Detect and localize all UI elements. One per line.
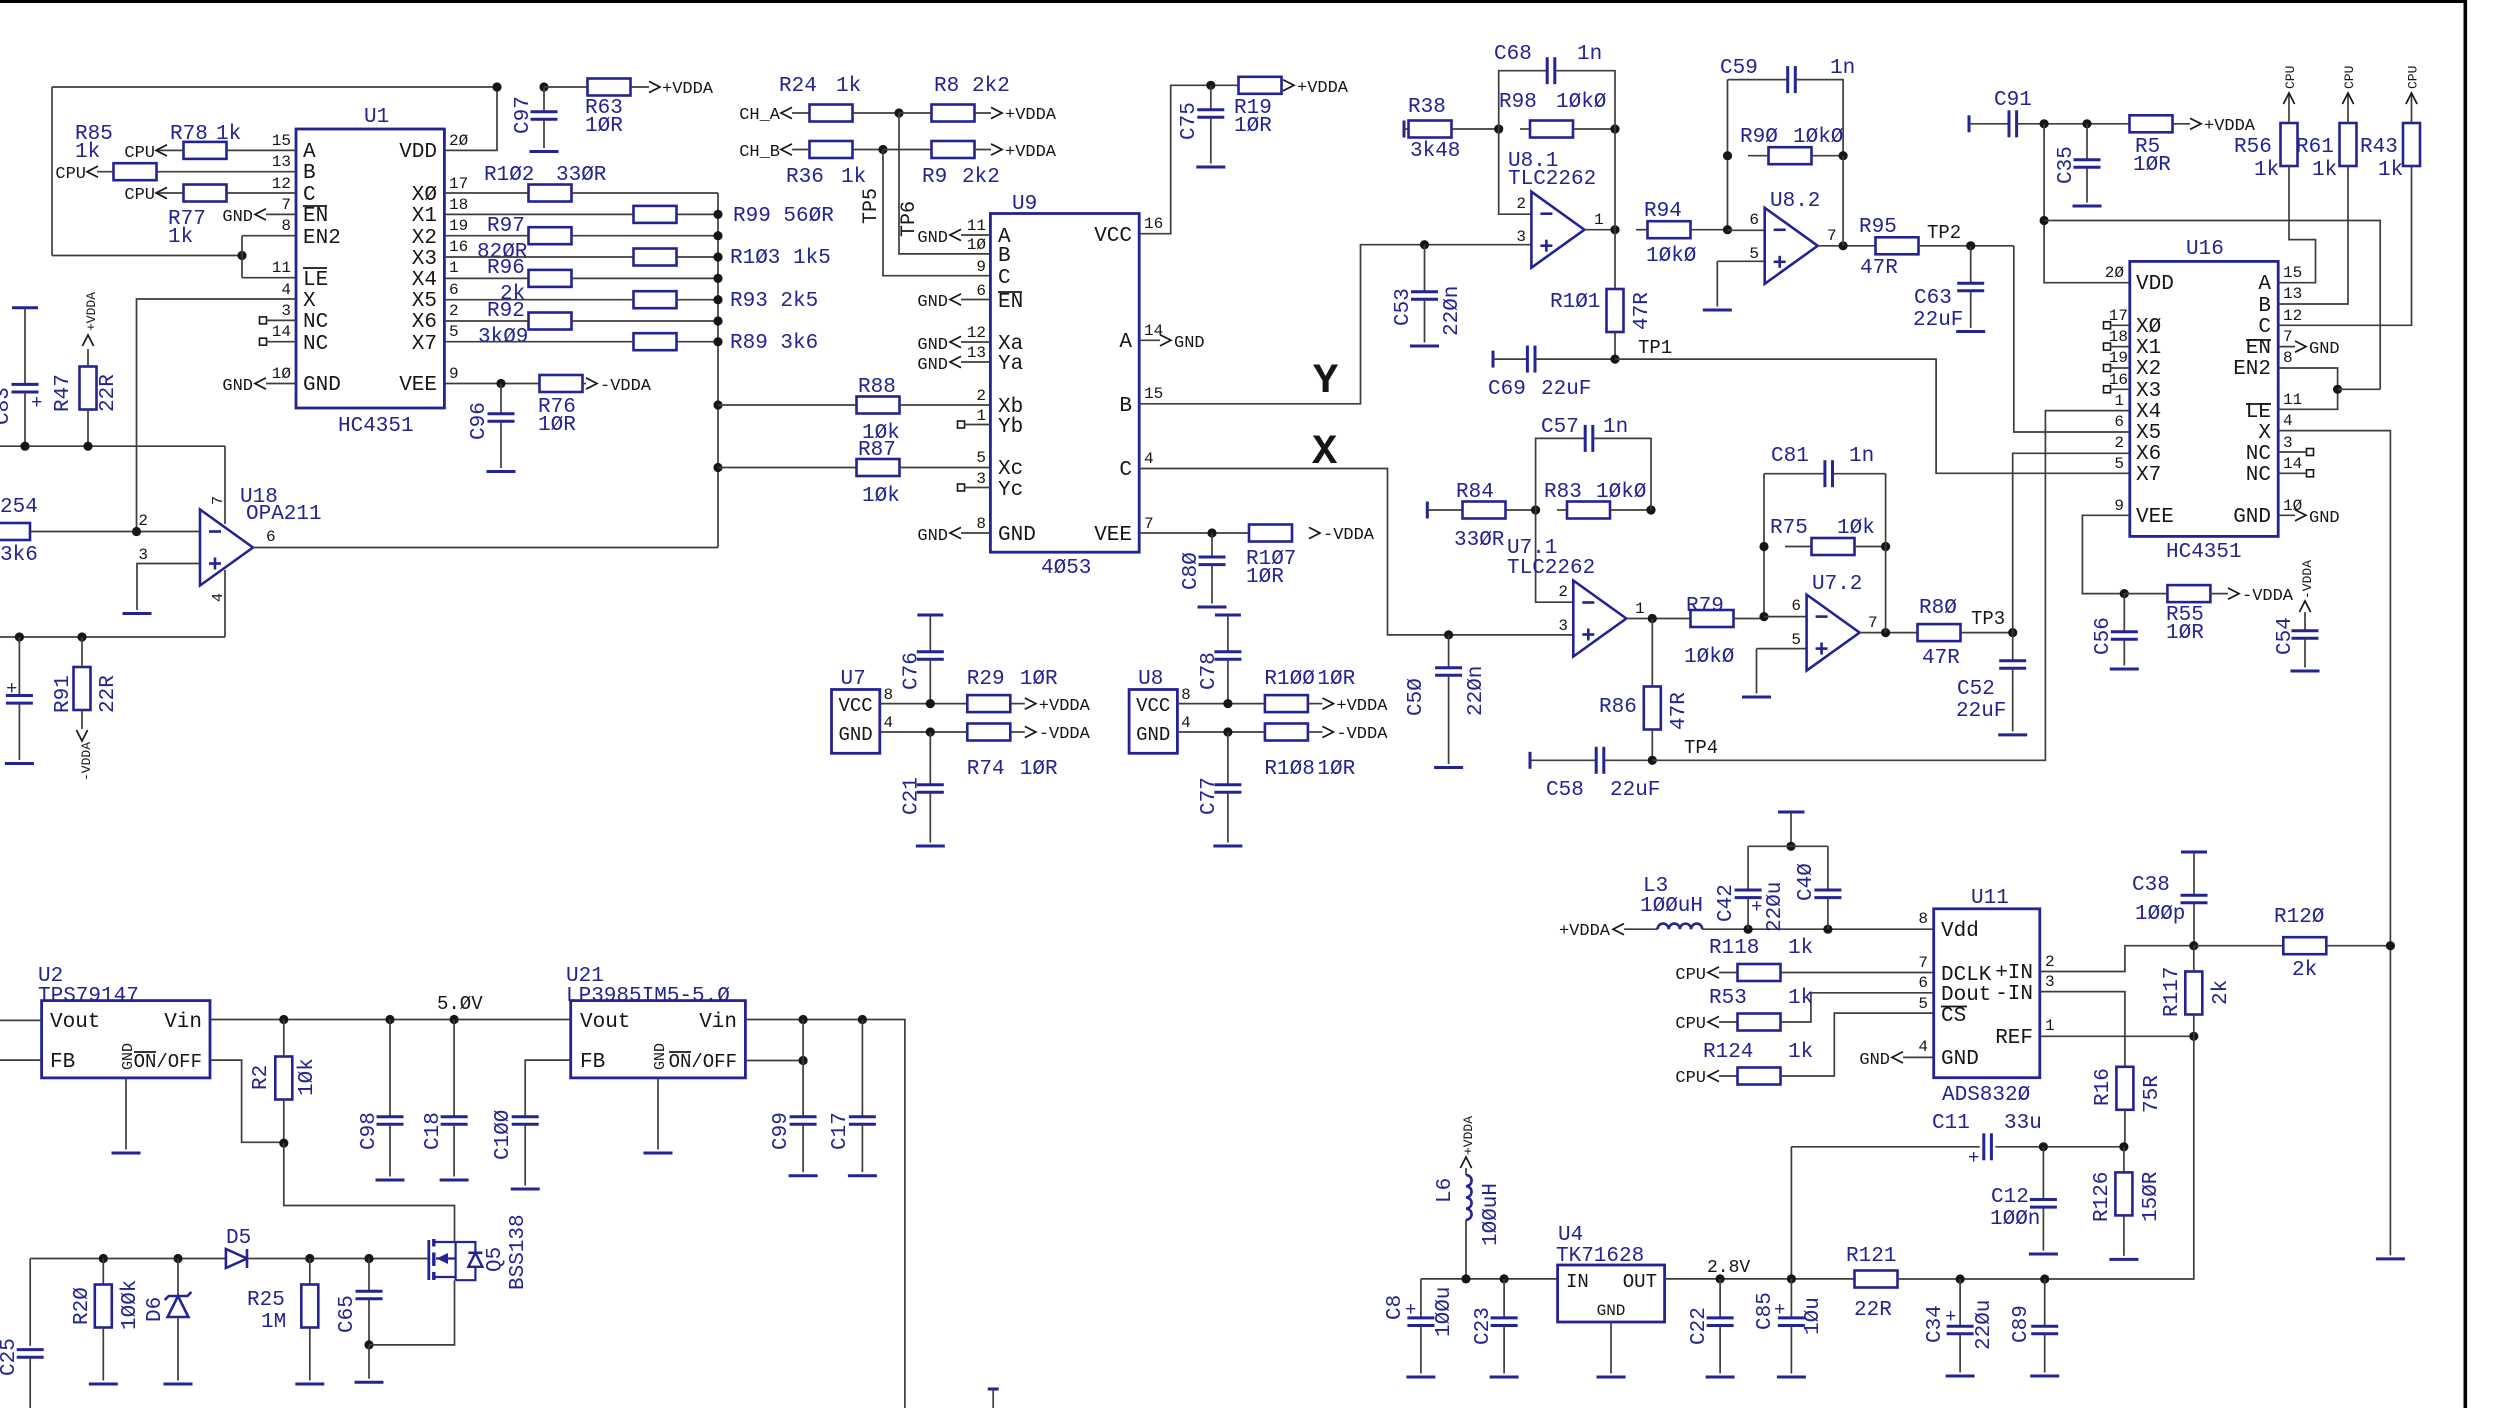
svg-text:-VDDA: -VDDA bbox=[2242, 587, 2294, 606]
svg-text:2k: 2k bbox=[2292, 959, 2317, 982]
svg-text:B: B bbox=[2258, 295, 2271, 318]
svg-text:4Ø53: 4Ø53 bbox=[1041, 557, 1091, 580]
svg-text:C1ØØ: C1ØØ bbox=[492, 1110, 515, 1160]
svg-text:R99 56ØR: R99 56ØR bbox=[733, 205, 834, 228]
svg-text:13: 13 bbox=[967, 344, 986, 362]
svg-text:6: 6 bbox=[449, 281, 459, 299]
ground U8.2 +input bbox=[1703, 261, 1732, 310]
svg-text:5: 5 bbox=[1749, 245, 1759, 263]
svg-text:CPU: CPU bbox=[1675, 1069, 1706, 1088]
svg-text:33ØR: 33ØR bbox=[556, 164, 607, 187]
svg-text:3k48: 3k48 bbox=[1410, 140, 1460, 163]
wire U1 VDD bbox=[444, 82, 501, 150]
capacitor C78 bbox=[1198, 615, 1242, 704]
svg-text:X1: X1 bbox=[412, 205, 437, 228]
svg-text:18: 18 bbox=[449, 196, 468, 214]
svg-text:LE: LE bbox=[303, 269, 328, 292]
resistor R121 bbox=[1846, 1245, 2049, 1322]
svg-text:NC: NC bbox=[2246, 443, 2271, 466]
U1 GND gnd flag bbox=[222, 377, 296, 396]
U9 pin labels right bbox=[1094, 225, 1132, 547]
wire REF net down bbox=[2045, 1036, 2194, 1279]
svg-text:4: 4 bbox=[1918, 1038, 1928, 1056]
svg-text:+VDDA: +VDDA bbox=[1005, 143, 1057, 162]
svg-text:15ØR: 15ØR bbox=[2140, 1171, 2163, 1222]
svg-text:U7: U7 bbox=[841, 668, 866, 691]
svg-text:B: B bbox=[998, 245, 1011, 268]
svg-text:CPU: CPU bbox=[1675, 1015, 1706, 1034]
U1 pin numbers left bbox=[272, 132, 292, 383]
svg-text:14: 14 bbox=[272, 323, 291, 341]
wire U11 +IN bbox=[2040, 946, 2194, 972]
U16 pin numbers right bbox=[2283, 264, 2303, 515]
capacitor C96 bbox=[468, 384, 516, 472]
transistor Q5 bbox=[429, 1214, 530, 1290]
resistor R84 bbox=[1427, 481, 1535, 552]
wire U21 ON/OFF bbox=[745, 1020, 807, 1066]
wire TP4 to U16.X4 bbox=[1652, 411, 2130, 761]
resistor R86 bbox=[1599, 619, 1691, 761]
svg-text:R2Ø: R2Ø bbox=[71, 1287, 94, 1325]
svg-text:22uF: 22uF bbox=[1956, 700, 2006, 723]
svg-text:X2: X2 bbox=[2136, 358, 2161, 381]
svg-text:CH_A: CH_A bbox=[739, 106, 781, 125]
svg-text:1n: 1n bbox=[1577, 43, 1602, 66]
svg-text:5: 5 bbox=[1918, 995, 1928, 1013]
svg-text:22Øu: 22Øu bbox=[1764, 882, 1787, 932]
svg-text:D6: D6 bbox=[144, 1297, 167, 1322]
capacitor C59 bbox=[1720, 57, 1855, 156]
svg-text:2Ø: 2Ø bbox=[449, 132, 469, 150]
svg-text:VEE: VEE bbox=[2136, 506, 2174, 529]
U11 pin numbers bbox=[1918, 910, 2054, 1056]
svg-text:C69: C69 bbox=[1488, 378, 1526, 401]
resistor R94 bbox=[1636, 200, 1728, 268]
svg-text:GND: GND bbox=[1597, 1302, 1626, 1320]
svg-text:R1Ø2: R1Ø2 bbox=[484, 164, 534, 187]
svg-text:U11: U11 bbox=[1971, 887, 2009, 910]
svg-text:C75: C75 bbox=[1178, 102, 1201, 140]
U1 pin numbers right bbox=[449, 132, 469, 383]
svg-text:13: 13 bbox=[2283, 285, 2302, 303]
capacitor C68 bbox=[1494, 43, 1615, 129]
svg-text:4: 4 bbox=[281, 281, 291, 299]
svg-text:L6: L6 bbox=[1434, 1178, 1457, 1203]
svg-text:R78: R78 bbox=[170, 123, 208, 146]
svg-text:R83: R83 bbox=[1544, 481, 1582, 504]
svg-text:A: A bbox=[1119, 331, 1132, 354]
svg-text:TPS79147: TPS79147 bbox=[38, 985, 139, 1008]
svg-text:C76: C76 bbox=[900, 652, 923, 690]
svg-text:Yc: Yc bbox=[998, 479, 1023, 502]
svg-text:13: 13 bbox=[272, 153, 291, 171]
svg-text:3kØ9: 3kØ9 bbox=[478, 326, 528, 349]
resistor R107 bbox=[1246, 525, 1296, 590]
svg-text:+VDDA: +VDDA bbox=[1461, 1116, 1476, 1155]
svg-text:C: C bbox=[2258, 316, 2271, 339]
svg-text:2.8V: 2.8V bbox=[1707, 1258, 1750, 1278]
resistor R103 bbox=[444, 247, 830, 270]
svg-text:X: X bbox=[1312, 428, 1338, 476]
svg-text:X5: X5 bbox=[2136, 422, 2161, 445]
capacitor C77 bbox=[1198, 732, 1243, 846]
diode D5 bbox=[226, 1227, 429, 1268]
svg-text:C8Ø: C8Ø bbox=[1180, 552, 1203, 590]
svg-text:1ØR: 1ØR bbox=[1234, 115, 1272, 138]
svg-text:Ya: Ya bbox=[998, 353, 1023, 376]
U16 NC pads right bbox=[2278, 449, 2313, 477]
U11 pin labels bbox=[1941, 920, 2033, 1071]
capacitor C83 bbox=[0, 308, 42, 446]
svg-text:X6: X6 bbox=[412, 311, 437, 334]
wire U1 X pin to U18 bbox=[137, 299, 297, 532]
U9 pin labels left bbox=[998, 226, 1036, 547]
ground U21 bbox=[644, 1078, 673, 1153]
resistor R16 bbox=[2092, 1067, 2164, 1147]
resistor R101 bbox=[1550, 289, 1654, 359]
op-amp U8 box bbox=[1129, 668, 1191, 753]
resistor R126 bbox=[2091, 1147, 2163, 1260]
svg-text:-VDDA: -VDDA bbox=[1039, 725, 1091, 744]
svg-text:OUT: OUT bbox=[1623, 1271, 1657, 1293]
svg-text:1k: 1k bbox=[836, 75, 861, 98]
svg-text:1k: 1k bbox=[1788, 937, 1813, 960]
svg-text:19: 19 bbox=[449, 217, 468, 235]
svg-text:GND: GND bbox=[917, 229, 948, 248]
svg-text:CPU: CPU bbox=[124, 186, 155, 205]
svg-text:22uF: 22uF bbox=[1610, 779, 1660, 802]
svg-text:7: 7 bbox=[281, 196, 291, 214]
svg-text:EN2: EN2 bbox=[303, 227, 341, 250]
svg-text:22Øn: 22Øn bbox=[1465, 666, 1488, 716]
svg-text:C89: C89 bbox=[2010, 1305, 2033, 1343]
svg-text:R9Ø: R9Ø bbox=[1740, 126, 1778, 149]
svg-text:+VDDA: +VDDA bbox=[84, 292, 99, 331]
svg-text:B: B bbox=[1119, 395, 1132, 418]
svg-text:1ØR: 1ØR bbox=[538, 414, 576, 437]
resistor R53 bbox=[1675, 987, 1933, 1034]
svg-text:GND: GND bbox=[1174, 334, 1205, 353]
svg-text:Dout: Dout bbox=[1941, 984, 1991, 1007]
wire U16 EN2/LE bbox=[2278, 368, 2380, 409]
svg-text:4: 4 bbox=[1181, 714, 1191, 732]
svg-text:GND: GND bbox=[2309, 509, 2340, 528]
svg-text:GND: GND bbox=[917, 293, 948, 312]
capacitor C35 bbox=[2055, 124, 2102, 206]
wire U8.1 out bbox=[1584, 129, 1619, 289]
svg-text:7: 7 bbox=[210, 496, 227, 505]
wire U11 -IN bbox=[2040, 992, 2125, 1068]
svg-text:EN: EN bbox=[998, 291, 1023, 314]
svg-text:+VDDA: +VDDA bbox=[1336, 697, 1388, 716]
capacitor C50 bbox=[1405, 630, 1488, 767]
svg-text:3: 3 bbox=[1558, 617, 1568, 635]
svg-text:1ØØuH: 1ØØuH bbox=[1480, 1183, 1503, 1246]
svg-text:8: 8 bbox=[884, 686, 894, 704]
svg-text:R75: R75 bbox=[1770, 517, 1808, 540]
svg-text:X7: X7 bbox=[412, 333, 437, 356]
svg-text:C56: C56 bbox=[2092, 617, 2115, 655]
svg-text:ON/OFF: ON/OFF bbox=[669, 1051, 737, 1073]
svg-text:-VDDA: -VDDA bbox=[600, 377, 652, 396]
svg-text:47R: 47R bbox=[1668, 692, 1691, 730]
svg-text:VEE: VEE bbox=[399, 374, 437, 397]
wire U9 VEE bbox=[1139, 526, 1375, 545]
svg-text:1k: 1k bbox=[841, 166, 866, 189]
wire U16 VEE bbox=[2082, 515, 2129, 598]
wire U1 VEE bbox=[444, 377, 651, 396]
svg-text:1M: 1M bbox=[261, 1311, 286, 1334]
svg-text:CPU: CPU bbox=[2342, 66, 2357, 89]
svg-text:VDD: VDD bbox=[399, 141, 437, 164]
svg-text:3: 3 bbox=[2283, 434, 2293, 452]
svg-text:3: 3 bbox=[281, 302, 291, 320]
svg-text:1k: 1k bbox=[168, 226, 193, 249]
svg-text:2: 2 bbox=[1558, 583, 1568, 601]
svg-text:1n: 1n bbox=[1830, 57, 1855, 80]
svg-text:C97: C97 bbox=[512, 96, 535, 134]
capacitor C91 bbox=[1969, 89, 2130, 137]
capacitor C17 bbox=[829, 1020, 877, 1176]
svg-text:1ØR: 1ØR bbox=[1020, 758, 1058, 781]
svg-text:R47: R47 bbox=[52, 374, 75, 412]
capacitor C76 bbox=[900, 615, 944, 704]
svg-text:TP5: TP5 bbox=[860, 188, 883, 224]
svg-text:Xc: Xc bbox=[998, 458, 1023, 481]
svg-text:2Ø: 2Ø bbox=[2105, 264, 2125, 282]
svg-text:33u: 33u bbox=[2004, 1112, 2042, 1135]
svg-text:R25: R25 bbox=[247, 1289, 285, 1312]
capacitor C98 bbox=[358, 1020, 405, 1181]
svg-text:2: 2 bbox=[2045, 953, 2055, 971]
U1 NC pads bbox=[260, 317, 297, 345]
svg-text:TLC2262: TLC2262 bbox=[1508, 168, 1596, 191]
op-amp U7.2 bbox=[1757, 573, 1878, 671]
svg-text:4: 4 bbox=[210, 593, 227, 602]
svg-text:U7.2: U7.2 bbox=[1812, 573, 1862, 596]
svg-text:11: 11 bbox=[2283, 391, 2302, 409]
svg-text:R97: R97 bbox=[487, 215, 525, 238]
svg-text:CH_B: CH_B bbox=[739, 143, 780, 162]
svg-text:7: 7 bbox=[1144, 515, 1154, 533]
resistor R87 bbox=[718, 439, 990, 508]
resistor R90 bbox=[1723, 80, 1848, 235]
svg-text:TP2: TP2 bbox=[1927, 222, 1961, 244]
svg-text:X: X bbox=[303, 290, 316, 313]
svg-text:GND: GND bbox=[2309, 340, 2340, 359]
svg-text:5: 5 bbox=[449, 323, 459, 341]
svg-text:C22: C22 bbox=[1688, 1307, 1711, 1345]
svg-text:5: 5 bbox=[1791, 631, 1801, 649]
svg-text:CPU: CPU bbox=[1675, 966, 1706, 985]
svg-text:6: 6 bbox=[2114, 413, 2124, 431]
capacitor C63 bbox=[1913, 246, 1985, 332]
svg-text:C78: C78 bbox=[1198, 652, 1221, 690]
wire U2 Vout bbox=[0, 1019, 42, 1021]
svg-text:C21: C21 bbox=[900, 777, 923, 815]
svg-text:3: 3 bbox=[976, 470, 986, 488]
svg-text:A: A bbox=[2258, 273, 2271, 296]
svg-text:+VDDA: +VDDA bbox=[1039, 697, 1091, 716]
svg-text:14: 14 bbox=[1144, 322, 1163, 340]
svg-text:C18: C18 bbox=[422, 1112, 445, 1150]
svg-text:C59: C59 bbox=[1720, 57, 1758, 80]
svg-text:1ØØuH: 1ØØuH bbox=[1640, 895, 1703, 918]
svg-text:4: 4 bbox=[2283, 412, 2293, 430]
svg-text:X5: X5 bbox=[412, 290, 437, 313]
resistor R88 bbox=[718, 376, 990, 445]
svg-text:R2: R2 bbox=[250, 1065, 273, 1090]
svg-text:+IN: +IN bbox=[1995, 962, 2033, 985]
svg-text:CPU: CPU bbox=[55, 165, 86, 184]
resistor R2 bbox=[250, 1020, 319, 1144]
svg-text:R53: R53 bbox=[1709, 987, 1747, 1010]
wire U7.1 out bbox=[1627, 614, 1692, 623]
svg-text:8: 8 bbox=[976, 515, 986, 533]
border frame right bar bbox=[2464, 0, 2468, 1408]
svg-text:Vout: Vout bbox=[50, 1011, 100, 1034]
resistor R80 bbox=[1918, 597, 2018, 670]
svg-text:+: + bbox=[1968, 1147, 1979, 1169]
wire Q5 source bbox=[369, 1280, 455, 1345]
wire +VDDA rail left bbox=[0, 442, 225, 451]
svg-text:22uF: 22uF bbox=[1541, 378, 1591, 401]
svg-text:C5Ø: C5Ø bbox=[1405, 678, 1428, 716]
svg-text:C63: C63 bbox=[1914, 287, 1952, 310]
svg-text:C35: C35 bbox=[2055, 146, 2078, 184]
svg-text:7: 7 bbox=[2283, 328, 2293, 346]
svg-text:22R: 22R bbox=[97, 374, 120, 412]
svg-text:15: 15 bbox=[2283, 264, 2302, 282]
wire -VDDA rail left bbox=[0, 632, 225, 641]
svg-text:VDD: VDD bbox=[2136, 273, 2174, 296]
svg-text:C91: C91 bbox=[1994, 89, 2032, 112]
svg-text:1: 1 bbox=[976, 407, 986, 425]
svg-text:HC4351: HC4351 bbox=[338, 415, 414, 438]
svg-text:GND: GND bbox=[839, 724, 873, 746]
svg-text:R96: R96 bbox=[487, 257, 525, 280]
wire VDD net U16 bbox=[2040, 124, 2381, 390]
op-amp U8.1 bbox=[1499, 129, 1604, 268]
svg-text:+VDDA: +VDDA bbox=[2204, 117, 2256, 136]
wire U16 X to R120 bbox=[2278, 431, 2405, 1259]
op-amp U21 box bbox=[566, 965, 745, 1078]
svg-text:R94: R94 bbox=[1644, 200, 1682, 223]
wire TP6 bbox=[898, 113, 990, 254]
capacitor C99 bbox=[770, 1061, 818, 1176]
svg-text:Y: Y bbox=[1313, 357, 1339, 405]
resistor R100 bbox=[1177, 668, 1388, 716]
svg-text:VCC: VCC bbox=[839, 695, 873, 717]
svg-text:+VDDA: +VDDA bbox=[1559, 922, 1611, 941]
wire U8.2 out bbox=[1818, 156, 1875, 251]
svg-text:U9: U9 bbox=[1012, 193, 1037, 216]
U9 A gnd flag bbox=[1139, 334, 1204, 353]
U11 GND flag bbox=[1859, 1051, 1933, 1070]
U16 EN gnd flag bbox=[2278, 340, 2339, 359]
capacitor C25 bbox=[0, 1259, 44, 1408]
svg-text:2k2: 2k2 bbox=[962, 166, 1000, 189]
resistor R9 bbox=[878, 141, 1056, 189]
svg-text:9: 9 bbox=[976, 258, 986, 276]
svg-text:12: 12 bbox=[272, 175, 291, 193]
capacitor C86 (cut) bbox=[5, 637, 34, 764]
svg-text:R126: R126 bbox=[2091, 1172, 2114, 1222]
svg-text:TP4: TP4 bbox=[1684, 737, 1718, 759]
svg-text:1Ø: 1Ø bbox=[272, 365, 292, 383]
svg-text:R98: R98 bbox=[1499, 91, 1537, 114]
capacitor C100 bbox=[492, 1060, 571, 1189]
U9 pin numbers bbox=[967, 215, 1163, 533]
svg-text:U1: U1 bbox=[364, 106, 389, 129]
svg-text:R74: R74 bbox=[967, 758, 1005, 781]
svg-text:C68: C68 bbox=[1494, 43, 1532, 66]
resistor R76 bbox=[538, 375, 586, 437]
U16 NC stub pads X0-X3 bbox=[2104, 322, 2130, 393]
svg-text:C4Ø: C4Ø bbox=[1795, 863, 1818, 901]
svg-text:C54: C54 bbox=[2274, 617, 2297, 655]
svg-text:1Øk: 1Øk bbox=[1837, 517, 1875, 540]
svg-text:15: 15 bbox=[272, 132, 291, 150]
svg-text:12: 12 bbox=[967, 324, 986, 342]
svg-text:R9: R9 bbox=[922, 166, 947, 189]
U9 NC pads bbox=[958, 421, 991, 491]
svg-text:1ØR: 1ØR bbox=[2166, 622, 2204, 645]
svg-text:6: 6 bbox=[266, 528, 276, 546]
svg-text:FB: FB bbox=[50, 1051, 75, 1074]
svg-text:GND: GND bbox=[222, 208, 253, 227]
svg-text:1k: 1k bbox=[2254, 159, 2279, 182]
svg-text:GND: GND bbox=[303, 374, 341, 397]
svg-text:4: 4 bbox=[1144, 450, 1154, 468]
capacitor C11 bbox=[1791, 1112, 2128, 1279]
capacitor C57 bbox=[1536, 416, 1651, 510]
svg-text:7: 7 bbox=[1868, 614, 1878, 632]
svg-text:22Øu: 22Øu bbox=[1973, 1300, 1996, 1350]
svg-text:47R: 47R bbox=[1922, 647, 1960, 670]
svg-text:5: 5 bbox=[976, 449, 986, 467]
svg-text:3: 3 bbox=[2045, 973, 2055, 991]
wire top-left frame bbox=[52, 87, 497, 256]
svg-text:R43: R43 bbox=[2360, 136, 2398, 159]
diode D6 zener bbox=[144, 1259, 193, 1385]
svg-text:NC: NC bbox=[303, 333, 328, 356]
svg-text:1ØkØ: 1ØkØ bbox=[1596, 481, 1646, 504]
svg-text:NC: NC bbox=[303, 311, 328, 334]
svg-text:Vout: Vout bbox=[580, 1011, 630, 1034]
svg-text:R1Ø1: R1Ø1 bbox=[1550, 291, 1600, 314]
resistor R124 bbox=[1675, 1013, 1933, 1088]
svg-text:C17: C17 bbox=[829, 1112, 852, 1150]
capacitor C80 bbox=[1180, 533, 1227, 607]
svg-text:2: 2 bbox=[138, 512, 148, 530]
op-amp U4 box bbox=[1556, 1224, 1665, 1322]
capacitor C21 bbox=[900, 732, 945, 846]
svg-text:CPU: CPU bbox=[124, 144, 155, 163]
svg-text:X2: X2 bbox=[412, 227, 437, 250]
capacitor C58 bbox=[1530, 737, 1718, 802]
wire summing bus bbox=[713, 193, 722, 548]
svg-text:3: 3 bbox=[1516, 228, 1526, 246]
U1 EN gnd flag bbox=[222, 208, 296, 227]
svg-text:C77: C77 bbox=[1198, 777, 1221, 815]
svg-text:R16: R16 bbox=[2092, 1068, 2115, 1106]
wire U2 FB bbox=[0, 1059, 42, 1061]
svg-text:C81: C81 bbox=[1771, 445, 1809, 468]
inductor L3 bbox=[1559, 875, 1934, 941]
wire TP5 bbox=[860, 150, 990, 276]
resistor R98 bbox=[1494, 91, 1620, 138]
